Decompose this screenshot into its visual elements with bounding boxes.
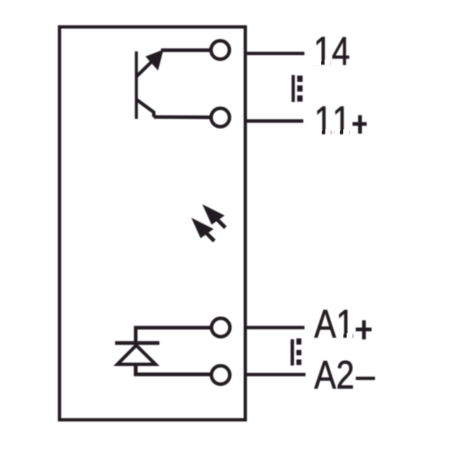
- external lead line 14: [245, 52, 304, 55]
- LED D1 cathode bar: [115, 341, 159, 345]
- terminal circle 14: [211, 41, 229, 59]
- svg-text:A1: A1: [314, 302, 354, 347]
- photon arrow lower: [191, 218, 214, 241]
- device outline box: [60, 27, 246, 420]
- connector icon between 14 and 11+: [292, 75, 303, 102]
- external lead line 11+: [245, 119, 303, 122]
- terminal circle 11+: [211, 108, 229, 126]
- connector icon between A1+ and A2-: [291, 338, 302, 365]
- transistor Q1 emitter diagonal with jog: [137, 100, 154, 117]
- wire: LED anode to terminal A2-: [136, 364, 210, 374]
- transistor Q1 collector diagonal with arrowhead: [137, 50, 164, 77]
- wire: emitter to terminal 11+: [154, 115, 210, 119]
- LED D1 triangle: [117, 345, 155, 364]
- svg-text:A2: A2: [314, 352, 354, 397]
- transistor Q1 base bar: [135, 51, 138, 119]
- wire: terminal A1+ to LED cathode: [136, 328, 210, 343]
- external lead line A1+: [245, 326, 304, 329]
- photon arrow upper: [202, 204, 225, 227]
- wire: collector to terminal 14: [161, 48, 210, 52]
- svg-text:14: 14: [314, 28, 350, 73]
- external lead line A2-: [245, 373, 305, 376]
- terminal circle A2-: [211, 366, 229, 384]
- white masks to remove foot serif of digit 1 glyphs: [314, 60, 352, 339]
- terminal circle A1+: [212, 318, 230, 336]
- svg-text:11: 11: [314, 98, 350, 143]
